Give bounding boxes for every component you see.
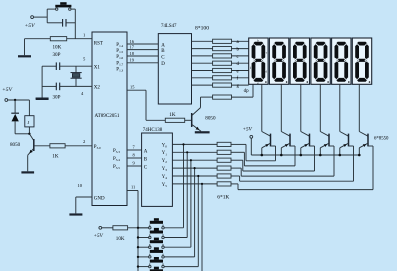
svg-text:AT89C2051: AT89C2051	[95, 113, 120, 119]
svg-text:8050: 8050	[10, 142, 21, 148]
svg-text:P1.3: P1.3	[116, 68, 123, 73]
svg-text:1K: 1K	[169, 112, 176, 118]
svg-text:J: J	[28, 120, 30, 125]
svg-text:6*8550: 6*8550	[374, 137, 389, 142]
svg-text:10K: 10K	[53, 45, 62, 51]
svg-text:X1: X1	[94, 65, 101, 70]
svg-text:+5V: +5V	[2, 87, 13, 93]
svg-text:+5V: +5V	[94, 233, 104, 239]
svg-text:GND: GND	[94, 197, 105, 202]
svg-text:Y5: Y5	[162, 183, 167, 188]
svg-text:P3.3: P3.3	[113, 149, 120, 154]
svg-text:Y3: Y3	[162, 167, 167, 172]
svg-text:10: 10	[78, 183, 83, 188]
svg-text:8050: 8050	[205, 116, 216, 122]
svg-text:30P: 30P	[53, 95, 61, 101]
svg-text:D: D	[161, 62, 165, 67]
svg-text:10K: 10K	[116, 236, 125, 242]
svg-text:P3.5: P3.5	[113, 165, 120, 170]
svg-text:P1.4: P1.4	[116, 43, 123, 48]
svg-text:P3.0: P3.0	[94, 145, 101, 150]
svg-text:74HC138: 74HC138	[143, 128, 163, 133]
svg-text:+5V: +5V	[243, 127, 253, 133]
svg-text:1K: 1K	[52, 154, 59, 160]
svg-text:Y2: Y2	[162, 159, 167, 164]
svg-text:+5V: +5V	[25, 23, 36, 29]
svg-text:8*100: 8*100	[195, 26, 209, 32]
svg-text:Y1: Y1	[162, 151, 167, 156]
svg-text:74LS47: 74LS47	[161, 24, 177, 29]
svg-text:P1.6: P1.6	[116, 55, 123, 60]
svg-text:11: 11	[131, 185, 135, 190]
svg-text:P1.5: P1.5	[116, 49, 123, 54]
svg-text:X2: X2	[94, 86, 101, 91]
svg-text:P1.7: P1.7	[116, 61, 123, 66]
svg-text:RST: RST	[94, 42, 103, 47]
svg-text:Y0: Y0	[162, 143, 167, 148]
svg-text:A: A	[161, 43, 165, 48]
svg-text:6*1K: 6*1K	[217, 195, 229, 201]
svg-text:30P: 30P	[53, 52, 61, 58]
svg-text:P3.4: P3.4	[113, 157, 120, 162]
svg-text:Y4: Y4	[162, 175, 167, 180]
svg-text:A: A	[144, 149, 148, 154]
svg-text:dp: dp	[244, 89, 250, 94]
